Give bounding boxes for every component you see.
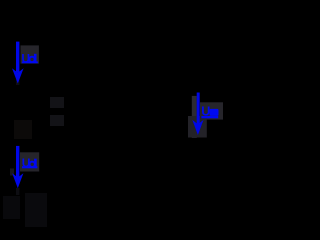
label U1 halo box bbox=[21, 45, 39, 63]
wire (faint) stub below arrow U2 tip bbox=[16, 188, 19, 195]
voltage arrow U1 head bbox=[12, 68, 24, 83]
voltage arrow U1 shaft bbox=[16, 42, 19, 73]
wire (faint) bottom blob right part bbox=[25, 193, 47, 227]
wire gray bar beside arrow Ua bbox=[192, 96, 197, 138]
wire (faint) bottom-left blob bbox=[3, 196, 20, 219]
label Ua halo box bbox=[200, 102, 223, 119]
wire (faint) mid blob B bbox=[50, 115, 64, 126]
voltage arrow U2 shaft bbox=[16, 146, 19, 178]
label U2 halo box bbox=[20, 152, 39, 171]
wire (faint) mid blob A bbox=[50, 97, 64, 108]
label U1 underline bbox=[22, 61, 38, 63]
label U2 underline bbox=[22, 166, 37, 168]
voltage arrow Ua shaft bbox=[197, 93, 200, 125]
voltage arrow U2 head bbox=[12, 173, 23, 188]
voltage arrow Ua head bbox=[192, 120, 203, 135]
node stub left of arrow U2 bbox=[10, 169, 14, 176]
label Ua underline bbox=[201, 116, 218, 118]
wire (faint) left branch upper stub bbox=[16, 77, 19, 85]
resistor R1 (faint) bbox=[14, 120, 32, 139]
halo around arrowhead Ua bbox=[188, 116, 207, 138]
